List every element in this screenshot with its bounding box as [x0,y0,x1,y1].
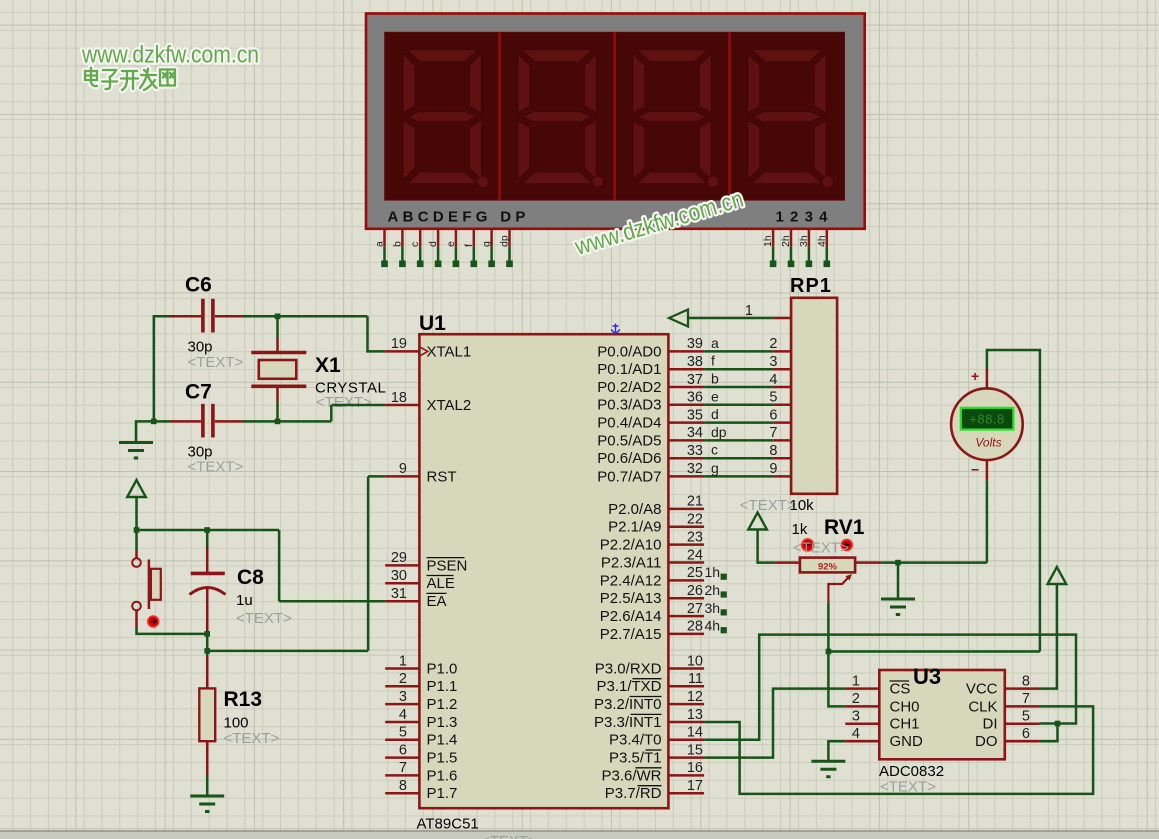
svg-text:f: f [711,353,715,369]
svg-text:1u: 1u [236,592,253,609]
svg-text:16: 16 [687,760,703,776]
svg-text:c: c [409,242,421,247]
svg-text:g: g [711,460,719,476]
svg-text:10: 10 [687,653,703,669]
display digit 3 [633,50,719,188]
svg-text:24: 24 [687,547,703,563]
svg-text:38: 38 [687,354,703,370]
display digit separators [500,32,730,200]
svg-text:10k: 10k [790,497,815,514]
svg-text:b: b [711,371,719,387]
svg-text:VCC: VCC [966,681,998,698]
svg-text:1h: 1h [762,235,774,247]
svg-text:www.dzkfw.com.cn: www.dzkfw.com.cn [81,42,259,69]
wires P0.0-P0.7 to RP1 [704,351,773,476]
svg-text:2: 2 [769,336,777,352]
svg-text:−: − [971,462,979,478]
svg-text:PSEN: PSEN [427,557,468,574]
svg-text:XTAL1: XTAL1 [427,343,472,360]
svg-text:P2.2/A10: P2.2/A10 [600,537,662,554]
svg-text:P2.5/A13: P2.5/A13 [600,590,662,607]
wire power arrow stem [135,497,138,531]
potentiometer RV1 [775,558,881,573]
U3 left pin numbers [852,673,860,742]
capacitor C7 [170,404,243,438]
svg-text:f: f [463,244,475,247]
svg-text:14: 14 [687,725,703,741]
svg-text:ALE: ALE [427,575,455,592]
svg-text:CH1: CH1 [890,716,920,733]
ground (crystal net) [119,443,153,459]
svg-text:ADC0832: ADC0832 [879,763,944,780]
svg-text:GND: GND [890,733,924,750]
svg-text:5: 5 [399,725,407,741]
svg-text:5: 5 [1022,709,1030,725]
wire U3 VCC to power arrow [1040,583,1057,689]
svg-text:+88.8: +88.8 [969,411,1004,426]
svg-text:a: a [374,241,386,247]
wire P3.3 to CLK (bottom run) [704,706,1093,794]
svg-text:e: e [445,241,457,247]
svg-text:4h: 4h [816,235,828,247]
wire riser to XTAL2 row [330,405,333,421]
svg-text:P1.2: P1.2 [427,696,458,713]
svg-text:dp: dp [711,424,727,440]
svg-text:d: d [711,406,719,422]
svg-text:3h: 3h [798,235,810,247]
svg-text:92%: 92% [818,561,838,572]
svg-text:2h: 2h [780,235,792,247]
wire stub to ground (crystal net) [136,421,154,441]
node junction wiper net [826,649,832,655]
svg-text:XTAL2: XTAL2 [427,397,472,414]
svg-text:1234: 1234 [776,209,834,226]
node junction DI/DO [1055,721,1061,727]
svg-text:23: 23 [687,529,703,545]
display digit 2 [518,50,604,188]
svg-text:7: 7 [399,760,407,776]
wire button top [135,530,138,551]
svg-text:P1.7: P1.7 [427,785,458,802]
svg-text:3: 3 [852,709,860,725]
wire voltmeter plus up and over [987,350,1040,652]
svg-text:6: 6 [399,742,407,758]
svg-text:a: a [711,335,719,351]
svg-text:18: 18 [391,390,407,406]
wire into XTAL2 pin [331,404,385,407]
watermark 电子开发网 (hand-drawn strokes) [85,68,175,91]
svg-text:2h: 2h [705,582,721,598]
node junction button wire [204,631,210,637]
svg-text:P3.4/T0: P3.4/T0 [609,732,662,749]
svg-text:1h: 1h [705,564,721,580]
ground (RV1 net) [881,599,915,615]
svg-text:P0.2/AD2: P0.2/AD2 [597,379,661,396]
node junction C8 top/VCC [204,527,210,533]
RV1 wiper arrow [828,574,851,602]
power arrow (RV1 left VCC) [748,513,767,530]
wire C7 junction to XTAL2 riser [278,420,332,423]
svg-text:3h: 3h [705,600,721,616]
display digit 4 [748,50,834,188]
svg-text:2: 2 [399,671,407,687]
svg-text:<TEXT>: <TEXT> [224,730,280,747]
svg-text:CS: CS [890,681,911,698]
svg-text:P2.4/A12: P2.4/A12 [600,572,662,589]
resistor R13 [199,656,215,776]
wire left rail C6 to C7 [153,315,156,421]
svg-text:P3.5/T1: P3.5/T1 [609,750,662,767]
svg-text:28: 28 [687,619,703,635]
wire X1 top lead [276,316,279,338]
svg-text:6: 6 [769,407,777,423]
svg-text:c: c [711,442,718,458]
wire P3.5 to CS [704,689,845,758]
U1 right pin names [594,343,662,802]
wire P3.4 to DI [704,635,1076,740]
svg-text:P3.0/RXD: P3.0/RXD [595,660,662,677]
svg-text:e: e [711,388,719,404]
U1 blue origin marker [611,324,620,335]
svg-text:36: 36 [687,390,703,406]
svg-text:<TEXT>: <TEXT> [236,610,292,627]
wire C6 right to XTAL1 corner [243,315,368,318]
power arrow (U3 VCC) [1048,567,1067,584]
wire wiper to CH0 [828,602,845,706]
svg-text:7: 7 [769,425,777,441]
svg-text:X1: X1 [315,354,341,377]
wire R13 bottom to ground [206,776,209,795]
resistor pack RP1 [773,298,837,494]
U1 PSEN ALE EA overlines [427,558,465,594]
svg-text:dp: dp [499,235,511,247]
svg-text:29: 29 [391,550,407,566]
wire wiper net horizontal [828,650,1040,653]
svg-text:4h: 4h [705,618,721,634]
svg-text:AT89C51: AT89C51 [417,816,479,833]
svg-text:P3.2/INT0: P3.2/INT0 [594,696,662,713]
svg-text:P0.5/AD5: P0.5/AD5 [597,432,661,449]
wire VCC row to EA riser [137,529,280,532]
wire RST horizontal [207,650,368,653]
svg-text:30p: 30p [188,339,213,356]
svg-text:<TEXT>: <TEXT> [481,833,537,839]
power arrow (reset net VCC) [127,480,146,497]
capacitor C6 [170,299,243,333]
svg-text:31: 31 [391,586,407,602]
svg-text:<TEXT>: <TEXT> [188,459,244,476]
svg-text:ABCDEFG DP: ABCDEFG DP [388,209,530,226]
svg-text:<TEXT>: <TEXT> [740,497,796,514]
svg-text:37: 37 [687,372,703,388]
svg-text:U3: U3 [913,664,941,689]
7-segment display module bezel [366,14,865,229]
node junction RV1/gnd [895,560,901,566]
svg-text:C6: C6 [185,274,212,297]
svg-text:1k: 1k [792,521,808,538]
svg-text:12: 12 [687,689,703,705]
svg-text:100: 100 [224,715,249,732]
node junction RST wire [204,648,210,654]
net terminal squares 1h-4h [721,574,727,634]
svg-text:5: 5 [769,390,777,406]
wire into XTAL1 pin [366,350,385,353]
svg-text:19: 19 [391,336,407,352]
svg-text:7: 7 [1022,691,1030,707]
net labels 1h-4h on P2.4-P2.7 [705,564,721,634]
U1 left pin stubs [385,351,419,793]
ground (R13) [190,796,224,812]
svg-text:1: 1 [745,303,753,319]
svg-text:6: 6 [1022,726,1030,742]
svg-text:P2.0/A8: P2.0/A8 [608,501,661,518]
svg-text:P2.1/A9: P2.1/A9 [608,519,661,536]
svg-text:DO: DO [975,733,998,750]
svg-text:P0.4/AD4: P0.4/AD4 [597,415,661,432]
wire EA riser down [278,530,281,601]
terminal arrow (RP1 pin1 net, points left) [669,310,688,327]
svg-text:P1.5: P1.5 [427,750,458,767]
voltmeter body [951,369,1023,481]
wire C7 right to X1 bottom junction [243,420,278,423]
svg-text:P3.7/RD: P3.7/RD [605,785,662,802]
svg-text:32: 32 [687,461,703,477]
wire RV1 vcc stem [758,529,776,563]
svg-text:13: 13 [687,707,703,723]
svg-text:P1.4: P1.4 [427,732,458,749]
svg-text:15: 15 [687,742,703,758]
ADC U3 body [845,670,1039,759]
watermark www.dzkfw.com.cn top-left [81,42,259,69]
svg-text:34: 34 [687,425,703,441]
svg-text:9: 9 [769,461,777,477]
svg-text:P2.7/A15: P2.7/A15 [600,626,662,643]
capacitor C8 (electrolytic) [190,547,226,632]
svg-text:2: 2 [852,691,860,707]
svg-text:4: 4 [852,726,860,742]
wire U3 GND pin to ground [828,741,845,760]
svg-text:P0.3/AD3: P0.3/AD3 [597,397,661,414]
net labels a f b e d dp c g [711,335,727,476]
svg-text:8: 8 [769,443,777,459]
button interactive red dot [148,616,159,627]
wire C8 bottom to R13 [206,632,209,656]
svg-text:3: 3 [769,354,777,370]
U3 right pin names [966,681,998,751]
svg-text:33: 33 [687,443,703,459]
svg-text:4: 4 [769,372,777,388]
svg-text:8: 8 [399,778,407,794]
U1 XTAL1 clock chevron [421,347,428,355]
U1 left pin numbers [391,336,407,794]
svg-text:P1.6: P1.6 [427,767,458,784]
svg-text:P3.1/TXD: P3.1/TXD [596,678,661,695]
svg-text:<TEXT>: <TEXT> [188,354,244,371]
wire C6 left to vertical rail [154,315,170,318]
display digit 1 [403,50,489,188]
svg-text:P0.6/AD6: P0.6/AD6 [597,450,661,467]
svg-text:P3.3/INT1: P3.3/INT1 [594,714,662,731]
wire button bottom to C8 rail [137,628,208,634]
display digit-select pins 1h-4h [762,229,830,267]
svg-text:g: g [481,241,493,247]
U3 CS overline [890,680,910,682]
svg-text:9: 9 [399,461,407,477]
svg-text:U1: U1 [419,312,446,335]
svg-text:P2.3/A11: P2.3/A11 [601,554,662,571]
push button [132,551,161,629]
svg-text:DI: DI [983,716,998,733]
svg-text:11: 11 [688,671,703,687]
svg-text:25: 25 [687,565,703,581]
svg-text:35: 35 [687,407,703,423]
svg-text:EA: EA [427,593,447,610]
svg-text:17: 17 [687,778,703,794]
U1 left pin names [427,343,472,802]
node junction button/VCC [134,527,140,533]
wire C7 left [154,420,170,423]
svg-text:P0.7/AD7: P0.7/AD7 [597,468,661,485]
wire X1 bottom lead [276,402,279,421]
wire into EA pin 31 [279,600,385,603]
node junction X1 bottom / C7 [275,419,281,425]
svg-text:3: 3 [399,689,407,705]
U1 right overlines TXD INT0 INT1 T1 WR RD [630,679,662,786]
svg-text:b: b [391,241,403,247]
svg-text:<TEXT>: <TEXT> [316,394,372,411]
svg-text:27: 27 [687,601,703,617]
svg-text:Volts: Volts [975,436,1001,450]
svg-text:30: 30 [391,568,407,584]
watermark www.dzkfw.com.cn diagonal center [571,185,746,261]
svg-text:8: 8 [1022,673,1030,689]
svg-text:RV1: RV1 [824,516,865,539]
U3 left pin names [890,681,924,751]
svg-text:<TEXT>: <TEXT> [793,540,849,557]
wire arrow to RP1 pin 1 [688,317,773,320]
U1 right pin numbers [687,336,703,794]
svg-text:P1.3: P1.3 [427,714,458,731]
svg-text:39: 39 [687,336,703,352]
svg-text:RP1: RP1 [790,275,832,297]
svg-text:CH0: CH0 [890,698,920,715]
svg-text:+: + [971,368,979,384]
svg-text:R13: R13 [224,688,263,711]
svg-text:CLK: CLK [968,698,997,715]
svg-text:C8: C8 [237,566,264,589]
svg-text:d: d [427,241,439,247]
wire voltmeter minus down [986,480,989,562]
svg-text:26: 26 [687,583,703,599]
display segment pins a-dp [374,229,513,267]
wire gnd stem (RV1 net) [897,563,900,598]
crystal X1 [251,338,306,402]
svg-text:P2.6/A14: P2.6/A14 [600,608,662,625]
wire into RST pin 9 [368,475,385,478]
U3 right pin numbers [1022,673,1030,742]
RP1 pin numbers 1-9 [745,303,778,477]
wire down to XTAL1 row [366,316,369,351]
wire C8 top lead (green) [206,530,209,547]
svg-text:P1.1: P1.1 [427,678,458,695]
svg-text:P3.6/WR: P3.6/WR [601,767,661,784]
node junction left rail / C7 [151,419,157,425]
wire DO loop [1040,724,1058,742]
ground (U3 GND) [811,761,845,777]
svg-text:P0.1/AD1: P0.1/AD1 [597,361,661,378]
U1 right pin stubs [668,351,704,793]
microcontroller U1 AT89C51 body [419,334,668,808]
svg-text:RST: RST [427,468,457,485]
svg-text:P0.0/AD0: P0.0/AD0 [597,343,661,360]
RV1 interactive red dots [802,539,853,551]
wire RST riser [367,476,370,651]
svg-text:P1.0: P1.0 [427,660,458,677]
svg-text:<TEXT>: <TEXT> [880,779,936,796]
node junction X1 top / C6 [275,314,281,320]
svg-text:1: 1 [399,653,407,669]
svg-text:1: 1 [852,673,860,689]
svg-text:4: 4 [399,707,407,723]
svg-text:22: 22 [687,512,703,528]
svg-text:C7: C7 [185,381,212,404]
svg-text:21: 21 [687,494,703,510]
wire RV1 right to voltmeter minus [881,561,987,564]
